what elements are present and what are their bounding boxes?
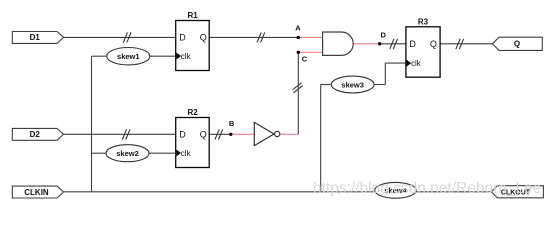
skew slash marks on node D net xyxy=(390,39,398,49)
svg-text:D2: D2 xyxy=(30,130,41,139)
delay element skew1 xyxy=(107,48,150,65)
input tag D2 xyxy=(12,128,63,140)
node C junction dot xyxy=(297,51,300,54)
svg-text:D: D xyxy=(380,31,386,40)
wire AND output to node D (red) xyxy=(353,43,379,45)
inverter U2 xyxy=(254,122,280,145)
wire node D to R3.D xyxy=(380,43,406,45)
svg-text:skew3: skew3 xyxy=(341,80,364,89)
svg-text:Q: Q xyxy=(200,129,207,139)
delay element skew3 xyxy=(331,76,374,93)
delay element skew2 xyxy=(106,145,149,162)
wire node C to AND input (red) xyxy=(298,51,322,53)
input tag D1 xyxy=(12,32,63,44)
svg-text:clk: clk xyxy=(181,52,192,61)
skew slash marks on R1.Q net xyxy=(257,32,265,42)
wire skew3 to R3.clk xyxy=(374,63,406,84)
wire R1.Q to node A xyxy=(209,36,298,38)
svg-text:R3: R3 xyxy=(418,17,429,26)
svg-text:R1: R1 xyxy=(187,11,198,20)
wire D2 to R2.D xyxy=(64,133,176,135)
skew slash marks on node C vertical net xyxy=(293,83,303,93)
skew slash marks on D2 net xyxy=(122,129,130,139)
svg-text:Q: Q xyxy=(200,32,207,42)
input tag CLKIN xyxy=(12,186,63,198)
output tag Q xyxy=(492,37,542,50)
svg-text:skew2: skew2 xyxy=(116,149,139,158)
svg-text:https://blog.csdn.net/Reborn_L: https://blog.csdn.net/Reborn_Lee xyxy=(313,180,541,197)
wire node B to inverter input (red) xyxy=(231,133,255,135)
svg-text:Q: Q xyxy=(514,40,520,49)
wire node A to AND input (red) xyxy=(298,36,322,38)
flip-flop R2 xyxy=(176,108,210,168)
flip-flop R3 xyxy=(406,17,440,77)
wire CLKIN riser to skew1/skew2 xyxy=(92,56,107,192)
wire CLKIN horizontal net xyxy=(64,191,492,193)
wire vertical riser inverter to node C xyxy=(297,52,299,134)
wire inverter output to vertical riser (red) xyxy=(280,133,298,135)
flip-flop R1 xyxy=(176,11,210,71)
wire CLKIN riser to skew3 xyxy=(321,85,332,192)
delay element skew4 xyxy=(375,182,417,198)
svg-text:clk: clk xyxy=(181,149,192,158)
svg-text:D: D xyxy=(179,129,186,139)
svg-text:skew1: skew1 xyxy=(117,52,140,61)
svg-text:D: D xyxy=(409,39,416,49)
wire R2.Q to node B xyxy=(209,133,231,135)
wire R3.Q to Q output tag xyxy=(440,43,492,45)
svg-text:A: A xyxy=(295,23,301,32)
svg-text:clk: clk xyxy=(411,59,422,68)
wire skew1 to R1.clk xyxy=(150,55,176,57)
svg-text:D1: D1 xyxy=(30,33,41,42)
skew slash marks on R2.Q net xyxy=(215,129,223,139)
node A junction dot xyxy=(297,36,300,39)
svg-text:Q: Q xyxy=(430,39,437,49)
svg-text:B: B xyxy=(229,119,235,128)
skew slash marks on D1 net xyxy=(123,32,131,42)
svg-text:R2: R2 xyxy=(187,108,198,117)
node D junction dot xyxy=(378,42,381,45)
AND gate U1 xyxy=(323,32,354,55)
wire D1 to R1.D xyxy=(64,36,176,38)
svg-text:D: D xyxy=(179,32,186,42)
node B junction dot xyxy=(229,133,232,136)
svg-text:CLKIN: CLKIN xyxy=(24,188,49,197)
wire skew2 to R2.clk xyxy=(149,152,176,154)
svg-text:C: C xyxy=(302,55,308,64)
skew slash marks on R3.Q net xyxy=(456,39,464,49)
output tag CLKOUT xyxy=(491,186,543,198)
